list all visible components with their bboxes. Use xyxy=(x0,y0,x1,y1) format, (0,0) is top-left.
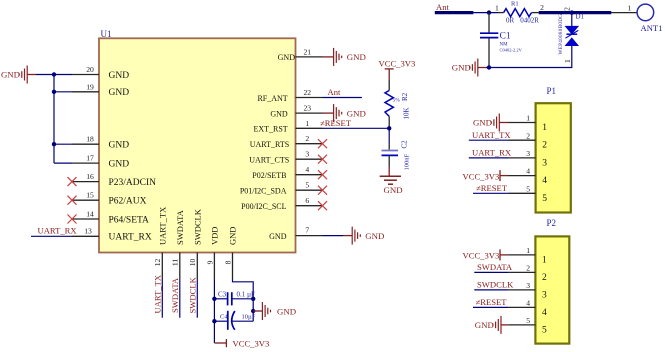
thick wire R1 to ANT1 xyxy=(539,11,612,14)
wire pin12 net UART_TX xyxy=(153,274,163,318)
svg-text:4: 4 xyxy=(526,167,530,176)
P1 pin 4 power VCC_3V3 xyxy=(463,167,536,182)
junction C1 bottom xyxy=(487,65,491,69)
svg-text:5: 5 xyxy=(542,194,547,204)
wire pin8 to cap bus xyxy=(233,280,254,322)
svg-text:9: 9 xyxy=(205,260,214,264)
U1 pin 2 xyxy=(250,134,323,149)
svg-text:UART_CTS: UART_CTS xyxy=(249,156,289,165)
svg-text:RF_ANT: RF_ANT xyxy=(257,94,287,103)
svg-text:8: 8 xyxy=(223,260,232,264)
junction nRESET node xyxy=(387,126,391,130)
svg-text:GND: GND xyxy=(347,52,366,62)
svg-text:GND: GND xyxy=(365,231,384,241)
svg-text:GND: GND xyxy=(475,320,494,330)
wire pin9 VDD rail xyxy=(213,280,215,344)
svg-text:R1: R1 xyxy=(511,1,519,8)
svg-text:20: 20 xyxy=(86,65,94,74)
svg-text:15: 15 xyxy=(86,191,94,200)
svg-text:GND: GND xyxy=(347,108,366,118)
svg-text:17: 17 xyxy=(86,154,94,163)
svg-text:UART_TX: UART_TX xyxy=(472,130,511,140)
svg-text:23: 23 xyxy=(304,104,312,113)
wire gnd bus to pins 20 19 18 17 xyxy=(36,75,72,164)
U1 pin 3 xyxy=(249,150,322,165)
svg-text:5: 5 xyxy=(526,184,530,193)
svg-text:≠RESET: ≠RESET xyxy=(320,118,352,128)
svg-text:21: 21 xyxy=(304,47,312,56)
ground symbol at U1 pin 21 xyxy=(323,48,366,66)
svg-text:Ant: Ant xyxy=(436,2,450,12)
capacitor C4 polarized xyxy=(214,311,255,330)
no-connect X pin14 xyxy=(68,215,77,224)
U1 pin 12 xyxy=(153,207,167,280)
svg-text:1: 1 xyxy=(542,255,547,265)
power port VCC_3V3 below pin 9 xyxy=(214,339,269,349)
wire pin10 net SWDCLK xyxy=(188,276,198,317)
no-connect X pin4 xyxy=(318,170,327,179)
svg-text:P01/I2C_SDA: P01/I2C_SDA xyxy=(240,187,287,196)
svg-text:1: 1 xyxy=(526,114,530,123)
tvs diode D1 xyxy=(558,7,585,63)
U1 pin 20 xyxy=(72,65,129,81)
U1 pin 8 xyxy=(223,227,237,280)
svg-text:5: 5 xyxy=(305,181,309,190)
svg-text:D1: D1 xyxy=(576,13,585,21)
junction C1 top xyxy=(487,10,491,14)
ground symbol right of C3 C4 xyxy=(253,302,296,320)
wire to ANT1 xyxy=(611,12,637,14)
svg-text:100nF: 100nF xyxy=(404,154,411,171)
P2 pin 2 net SWDATA xyxy=(474,262,535,272)
svg-text:GND: GND xyxy=(277,306,296,316)
svg-text:4: 4 xyxy=(526,299,530,308)
U1 pin 6 xyxy=(241,196,322,211)
svg-text:18: 18 xyxy=(86,135,94,144)
svg-text:VCC_3V3: VCC_3V3 xyxy=(379,59,416,69)
P1 pin 3 net UART_RX xyxy=(469,148,536,158)
svg-text:22: 22 xyxy=(304,88,312,97)
svg-text:C0402-2.2V: C0402-2.2V xyxy=(500,48,523,53)
P2 pin 4 net =RESET xyxy=(473,297,535,307)
svg-text:5: 5 xyxy=(526,316,530,325)
svg-text:UART_RX: UART_RX xyxy=(472,148,512,158)
svg-text:6: 6 xyxy=(305,196,309,205)
no-connect X pin15 xyxy=(68,196,77,205)
svg-text:UART_RX: UART_RX xyxy=(38,226,78,236)
svg-text:SWDATA: SWDATA xyxy=(175,209,185,245)
svg-text:5: 5 xyxy=(542,325,547,335)
power port VCC_3V3 above R2 xyxy=(379,59,416,81)
svg-text:GND: GND xyxy=(109,141,130,151)
svg-text:3: 3 xyxy=(542,158,547,168)
P1 pin 1 stub xyxy=(509,114,536,123)
svg-text:3: 3 xyxy=(542,290,547,300)
svg-text:≠RESET: ≠RESET xyxy=(476,297,508,307)
U1 pin 7 xyxy=(269,226,322,241)
wire Ant to R1 xyxy=(473,12,498,14)
svg-text:13: 13 xyxy=(84,226,92,235)
U1 pin 21 xyxy=(278,47,323,62)
ground symbol P1 pin1 xyxy=(473,114,509,132)
no-connect X pin2 xyxy=(318,139,327,148)
U1 pin 9 xyxy=(205,227,219,280)
svg-text:19: 19 xyxy=(86,82,94,91)
svg-text:4: 4 xyxy=(542,308,547,318)
ground symbol antenna section xyxy=(452,59,486,77)
svg-text:14: 14 xyxy=(86,210,94,219)
U1 pin 13 xyxy=(72,226,152,242)
svg-text:P00/I2C_SCL: P00/I2C_SCL xyxy=(241,202,286,211)
U1 pin 5 xyxy=(240,181,323,196)
U1 pin 15 xyxy=(72,191,147,207)
connector P1 xyxy=(536,86,571,213)
ground symbol at U1 pin 7 xyxy=(323,227,385,245)
svg-text:VCC_3V3: VCC_3V3 xyxy=(463,171,500,181)
svg-text:2: 2 xyxy=(526,131,530,140)
svg-text:GND: GND xyxy=(278,53,296,62)
svg-text:WEP40080B0DG: WEP40080B0DG xyxy=(558,14,564,55)
U1 pin 17 xyxy=(72,154,129,170)
svg-text:2: 2 xyxy=(542,141,547,151)
svg-text:GND: GND xyxy=(384,185,403,195)
svg-text:C2: C2 xyxy=(401,140,409,149)
wire R2 to C2 xyxy=(388,128,390,143)
svg-text:10K: 10K xyxy=(403,107,411,119)
svg-text:10µF: 10µF xyxy=(242,314,256,321)
svg-text:UART_TX: UART_TX xyxy=(153,274,163,313)
antenna ANT1 xyxy=(628,4,663,33)
svg-text:U1: U1 xyxy=(101,29,112,39)
net label =RESET wire at U1 pin 1 xyxy=(320,118,389,128)
U1 pin 10 xyxy=(188,208,202,279)
svg-text:2: 2 xyxy=(526,264,530,273)
svg-text:0R: 0R xyxy=(506,17,515,25)
svg-text:SWDATA: SWDATA xyxy=(170,277,180,313)
svg-text:11: 11 xyxy=(171,259,180,267)
connector P2 xyxy=(535,218,569,344)
svg-text:0402R: 0402R xyxy=(520,17,539,25)
svg-text:UART_TX: UART_TX xyxy=(158,207,168,245)
net label UART_RX wire at pin13 xyxy=(31,226,77,237)
junction at pin20 wire xyxy=(52,72,56,76)
svg-text:VCC_3V3: VCC_3V3 xyxy=(233,339,270,349)
svg-text:2: 2 xyxy=(562,7,571,11)
earth ground below C2 xyxy=(380,167,403,195)
capacitor C1 xyxy=(480,13,523,68)
svg-text:C3: C3 xyxy=(218,291,227,299)
svg-text:2: 2 xyxy=(540,3,544,12)
svg-text:1: 1 xyxy=(495,3,499,12)
U1 pin 14 xyxy=(72,210,149,226)
no-connect X pin6 xyxy=(318,201,327,210)
svg-text:Ant: Ant xyxy=(328,87,342,97)
svg-text:GND: GND xyxy=(452,63,471,73)
svg-text:SWDCLK: SWDCLK xyxy=(193,208,203,245)
wire pin11 net SWDATA xyxy=(170,277,180,318)
svg-text:SWDATA: SWDATA xyxy=(477,262,513,272)
svg-text:ANT1: ANT1 xyxy=(641,23,663,33)
U1 pin 18 xyxy=(72,135,129,151)
svg-text:GND: GND xyxy=(228,227,238,245)
junction at pin19 wire xyxy=(52,90,56,94)
junction pin9/C4 xyxy=(212,319,216,323)
svg-text:2: 2 xyxy=(542,273,547,283)
svg-text:10: 10 xyxy=(188,259,197,267)
junction at pin18 wire xyxy=(52,142,56,146)
svg-text:SWDCLK: SWDCLK xyxy=(477,280,514,290)
svg-text:P1: P1 xyxy=(547,86,557,96)
svg-text:GND: GND xyxy=(1,70,20,80)
ground symbol left of U1 xyxy=(1,66,36,84)
junction C3 right xyxy=(251,297,255,301)
svg-text:1: 1 xyxy=(526,246,530,255)
capacitor C2 xyxy=(382,140,411,171)
svg-text:P64/SETA: P64/SETA xyxy=(109,215,150,225)
U1 pin 11 xyxy=(171,209,185,279)
capacitor C3 xyxy=(214,291,255,306)
junction gnd tap xyxy=(251,309,255,313)
svg-text:3: 3 xyxy=(526,281,530,290)
ground symbol at U1 pin 23 xyxy=(323,104,366,122)
svg-text:GND: GND xyxy=(270,109,288,118)
net label Ant top antenna line xyxy=(435,2,474,13)
svg-text:C1: C1 xyxy=(500,32,511,42)
ic U1 body xyxy=(99,29,296,253)
svg-text:GND: GND xyxy=(269,232,287,241)
svg-text:R2: R2 xyxy=(401,92,409,101)
svg-text:1: 1 xyxy=(563,59,572,63)
svg-text:≠RESET: ≠RESET xyxy=(476,183,508,193)
svg-text:GND: GND xyxy=(109,159,130,169)
no-connect X pin5 xyxy=(318,186,327,195)
svg-text:4: 4 xyxy=(305,165,309,174)
svg-text:GND: GND xyxy=(109,88,130,98)
P2 pin 1 power VCC_3V3 xyxy=(463,246,536,261)
svg-text:VDD: VDD xyxy=(210,227,220,245)
svg-text:GND: GND xyxy=(473,118,492,128)
svg-text:VCC_3V3: VCC_3V3 xyxy=(463,251,500,261)
svg-text:3: 3 xyxy=(305,150,309,159)
P2 pin 3 net SWDCLK xyxy=(474,280,535,290)
U1 pin 1 xyxy=(253,119,322,134)
svg-text:P23/ADCIN: P23/ADCIN xyxy=(109,178,157,188)
svg-text:1: 1 xyxy=(305,119,309,128)
svg-text:P02/SETB: P02/SETB xyxy=(252,171,286,180)
U1 pin 4 xyxy=(252,165,322,180)
svg-text:SWDCLK: SWDCLK xyxy=(188,276,198,313)
svg-text:5%: 5% xyxy=(393,97,401,103)
svg-text:3: 3 xyxy=(526,149,530,158)
svg-text:2: 2 xyxy=(305,134,309,143)
svg-text:P62/AUX: P62/AUX xyxy=(109,197,147,207)
resistor R1 xyxy=(495,1,544,25)
wire gnd bus to D1 bottom xyxy=(486,46,572,68)
svg-text:16: 16 xyxy=(86,172,94,181)
junction D1 top xyxy=(570,10,574,14)
P1 pin 2 net UART_TX xyxy=(469,130,536,140)
junction pin9/C3 xyxy=(212,297,216,301)
resistor R2 xyxy=(385,80,411,128)
svg-text:P2: P2 xyxy=(547,218,557,228)
P1 pin 5 net =RESET xyxy=(473,183,536,193)
U1 pin 23 xyxy=(270,104,322,119)
svg-text:GND: GND xyxy=(109,71,130,81)
svg-text:1: 1 xyxy=(628,4,632,13)
svg-text:7: 7 xyxy=(305,226,309,235)
svg-text:12: 12 xyxy=(153,259,162,267)
svg-text:UART_RTS: UART_RTS xyxy=(250,140,290,149)
U1 pin 16 xyxy=(72,172,156,188)
svg-text:4: 4 xyxy=(542,176,547,186)
U1 pin 19 xyxy=(72,82,129,98)
svg-text:UART_RX: UART_RX xyxy=(109,233,152,243)
no-connect X pin16 xyxy=(68,177,77,186)
U1 pin 22 xyxy=(257,88,322,103)
net label Ant at U1 pin 22 xyxy=(323,87,362,97)
P2 pin 5 ground xyxy=(475,316,536,334)
svg-text:C4: C4 xyxy=(220,314,228,321)
no-connect X pin3 xyxy=(318,155,327,164)
svg-text:1: 1 xyxy=(542,123,547,133)
svg-text:EXT_RST: EXT_RST xyxy=(253,125,287,134)
